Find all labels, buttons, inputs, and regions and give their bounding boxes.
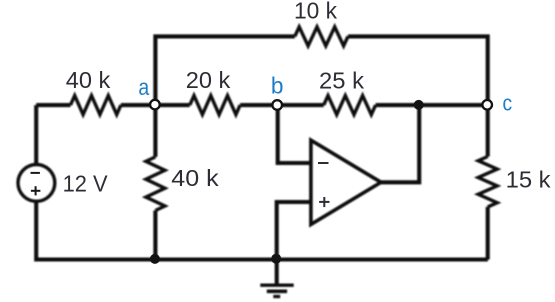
svg-text:a: a (138, 74, 150, 100)
svg-text:25 k: 25 k (319, 68, 364, 94)
svg-text:b: b (271, 72, 284, 98)
svg-text:40 k: 40 k (66, 67, 111, 93)
svg-text:15 k: 15 k (506, 167, 551, 193)
svg-text:20 k: 20 k (186, 67, 231, 93)
svg-text:12 V: 12 V (63, 170, 108, 196)
svg-text:40 k: 40 k (171, 165, 219, 191)
svg-text:c: c (503, 90, 513, 115)
svg-text:10 k: 10 k (294, 0, 337, 23)
